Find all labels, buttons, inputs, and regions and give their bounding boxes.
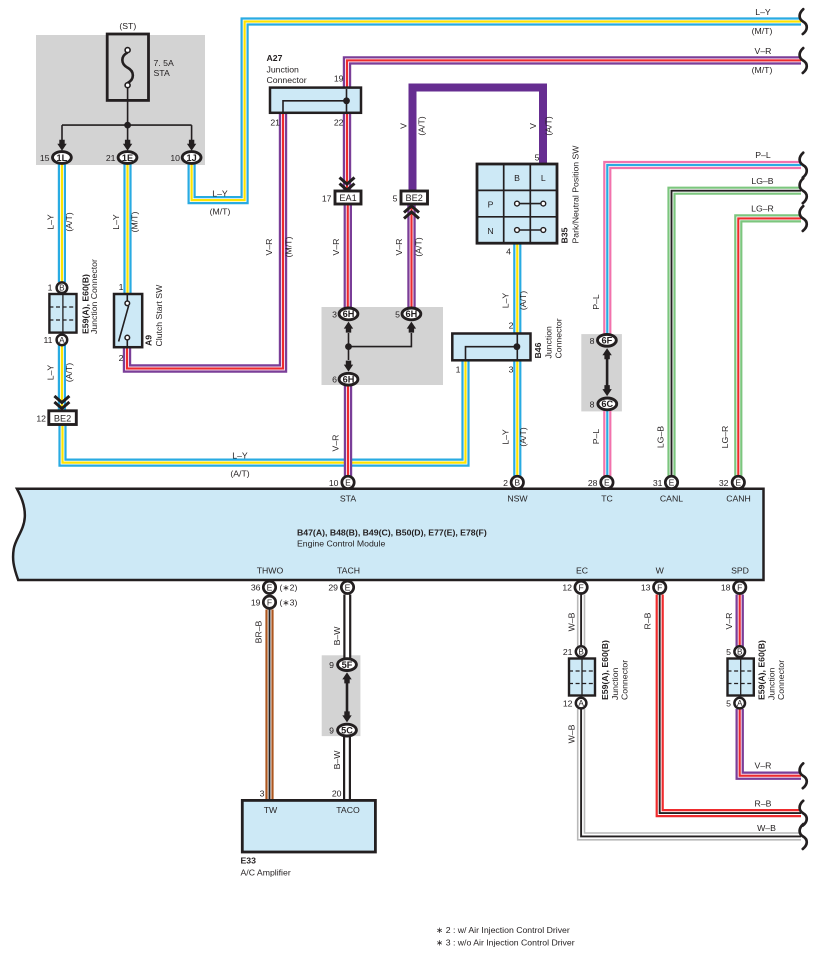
connector terminal 9(5C) xyxy=(338,724,357,736)
svg-text:3: 3 xyxy=(509,365,514,375)
svg-text:B: B xyxy=(514,173,520,183)
svg-text:EA1: EA1 xyxy=(339,193,356,203)
pin ECM STA 10(E) xyxy=(342,476,354,488)
svg-text:B35: B35 xyxy=(560,227,570,243)
svg-text:LG–B: LG–B xyxy=(751,176,773,186)
svg-text:Junction: Junction xyxy=(610,667,620,700)
wire W-B from ECM EC to E59/E60 pin B xyxy=(577,595,585,654)
svg-text:P–L: P–L xyxy=(591,294,601,310)
svg-text:V–R: V–R xyxy=(724,613,734,630)
svg-text:THWO: THWO xyxy=(257,566,284,576)
svg-text:(A/T): (A/T) xyxy=(544,116,554,135)
svg-text:5: 5 xyxy=(726,699,731,709)
svg-text:8: 8 xyxy=(590,399,595,409)
svg-text:CANH: CANH xyxy=(726,494,751,504)
svg-text:6H: 6H xyxy=(406,309,418,319)
svg-text:E59(A), E60(B): E59(A), E60(B) xyxy=(757,640,767,700)
svg-text:1L: 1L xyxy=(57,153,68,163)
svg-text:(A/T): (A/T) xyxy=(230,469,249,479)
wire-break symbol L-Y (M/T) top xyxy=(800,9,807,34)
wire-break symbol V-R bottom xyxy=(800,763,807,788)
svg-text:V–R: V–R xyxy=(331,435,341,452)
svg-text:Connector: Connector xyxy=(620,660,630,700)
svg-text:BE2: BE2 xyxy=(406,193,423,203)
svg-text:B–W: B–W xyxy=(332,626,342,646)
gray box around 5F/5C connectors xyxy=(322,655,361,736)
wire V-R from A27 pin 19 up and right to break (M/T) xyxy=(347,60,801,89)
pin E59/E60 pin A left xyxy=(57,335,68,346)
arrow into terminal 1L xyxy=(57,140,66,151)
svg-text:E33: E33 xyxy=(241,856,257,866)
svg-text:L–Y: L–Y xyxy=(46,214,56,230)
arrow into terminal 1J xyxy=(187,140,196,151)
wire P-L from break right to 6F xyxy=(607,165,801,335)
svg-text:9: 9 xyxy=(329,660,334,670)
svg-text:2: 2 xyxy=(503,478,508,488)
wire V-R from E59/E60 pin A down and right to break xyxy=(740,709,801,776)
svg-text:TACH: TACH xyxy=(337,566,360,576)
wire L-Y from E59/E60 pin A to BE2 xyxy=(58,345,66,412)
clutch start switch A9 xyxy=(114,294,142,347)
pin ECM SPD 18(F) xyxy=(734,581,746,593)
wire L-Y from 1J up and right to break (M/T) xyxy=(192,22,801,201)
svg-text:B–W: B–W xyxy=(332,750,342,770)
svg-text:A: A xyxy=(578,699,584,708)
svg-text:LG–R: LG–R xyxy=(720,426,730,449)
svg-text:V–R: V–R xyxy=(394,239,404,256)
pin ECM CANL 31(E) xyxy=(665,476,677,488)
svg-text:Clutch Start SW: Clutch Start SW xyxy=(154,284,164,347)
fuse STA 7.5A internal lead xyxy=(62,87,192,144)
svg-text:B46: B46 xyxy=(533,342,543,358)
svg-text:3: 3 xyxy=(260,789,265,799)
svg-text:6H: 6H xyxy=(343,309,355,319)
connector terminal 9(5F) xyxy=(338,659,357,671)
svg-text:W–B: W–B xyxy=(757,823,776,833)
wire V-R from A27 pin 22 to EA1 xyxy=(343,112,351,192)
svg-text:E: E xyxy=(669,478,675,488)
connector terminal 3(6H) xyxy=(339,308,358,320)
svg-text:L–Y: L–Y xyxy=(755,7,771,17)
pin E59/E60 pin B EC xyxy=(576,646,587,657)
connector terminal 8(6C) xyxy=(598,398,617,410)
wire R-B from ECM W down and right to break xyxy=(660,595,801,814)
svg-text:5F: 5F xyxy=(342,660,353,670)
svg-text:L–Y: L–Y xyxy=(212,189,228,199)
svg-text:(A/T): (A/T) xyxy=(417,116,427,135)
svg-text:R–B: R–B xyxy=(643,612,653,629)
svg-text:(A/T): (A/T) xyxy=(64,363,74,382)
connector terminal 6(6H) xyxy=(339,373,358,385)
svg-text:5: 5 xyxy=(726,647,731,657)
svg-text:B: B xyxy=(59,284,65,293)
svg-text:19: 19 xyxy=(251,598,261,608)
svg-text:B: B xyxy=(737,648,743,657)
svg-text:LG–R: LG–R xyxy=(751,204,774,214)
wire V-R from 6(6H) to ECM STA xyxy=(344,385,352,477)
svg-text:8: 8 xyxy=(590,336,595,346)
svg-text:6C: 6C xyxy=(601,399,613,409)
svg-text:10: 10 xyxy=(170,153,180,163)
svg-text:P: P xyxy=(488,200,494,210)
svg-text:B: B xyxy=(578,648,584,657)
wire B-W from 5C to E33 TACO xyxy=(343,729,351,801)
svg-text:N: N xyxy=(487,226,493,236)
gray box around 6H junction block xyxy=(322,307,444,385)
wire L-Y from 1L to E59/E60 junction connector pin B xyxy=(58,160,66,282)
svg-text:Junction: Junction xyxy=(767,667,777,700)
connector terminal 1E xyxy=(118,152,137,164)
junction connector E59(A),E60(B) left xyxy=(49,294,76,333)
svg-text:(M/T): (M/T) xyxy=(130,212,140,233)
double chevron out of BE2 upper xyxy=(404,206,419,219)
Engine Control Module B47(A),B48(B),B49(C),B50(D),E77(E),E78(F) xyxy=(13,489,763,580)
svg-text:6F: 6F xyxy=(602,336,613,346)
B35 contact N row xyxy=(520,229,541,231)
svg-text:20: 20 xyxy=(332,789,342,799)
svg-text:(∗3): (∗3) xyxy=(280,598,298,608)
svg-text:5: 5 xyxy=(535,153,540,163)
svg-text:Connector: Connector xyxy=(554,318,564,358)
connector terminal 1L xyxy=(53,152,72,164)
svg-text:∗ 2 : w/ Air Injection Control: ∗ 2 : w/ Air Injection Control Driver xyxy=(436,925,570,935)
svg-text:BE2: BE2 xyxy=(54,413,71,423)
wire LG-R from break to ECM CANH xyxy=(738,218,801,477)
svg-text:A/C Amplifier: A/C Amplifier xyxy=(241,868,291,878)
svg-text:L: L xyxy=(541,173,546,183)
svg-text:STA: STA xyxy=(154,68,170,78)
svg-text:(M/T): (M/T) xyxy=(752,26,773,36)
wire LG-B from break to ECM CANL xyxy=(672,191,802,477)
svg-text:Junction: Junction xyxy=(267,65,300,75)
svg-text:36: 36 xyxy=(251,583,261,593)
wire B-W from ECM TACH to 5F xyxy=(343,595,351,667)
wire-break symbol LG-R xyxy=(800,206,807,231)
svg-text:6H: 6H xyxy=(343,375,355,385)
svg-text:12: 12 xyxy=(36,414,46,424)
svg-text:A9: A9 xyxy=(144,335,154,346)
junction connector A27 xyxy=(270,88,361,113)
junction connector E59(A),E60(B) below EC xyxy=(569,659,595,696)
pin E59/E60 pin B SPD xyxy=(734,646,745,657)
svg-text:W–B: W–B xyxy=(567,724,577,743)
wire-break symbol W-B bottom xyxy=(800,824,807,849)
svg-text:12: 12 xyxy=(563,699,573,709)
connector terminal 8(6F) xyxy=(598,334,617,346)
svg-text:L–Y: L–Y xyxy=(501,293,511,309)
fuse STA symbol box xyxy=(107,34,148,100)
pin E59/E60 pin A EC xyxy=(576,698,587,709)
svg-text:6: 6 xyxy=(332,375,337,385)
wire V-R from A27 pin 21 down and left to A9 pin 2 xyxy=(127,112,283,369)
svg-text:Junction: Junction xyxy=(544,326,554,359)
svg-text:19: 19 xyxy=(334,74,344,84)
svg-text:A: A xyxy=(737,699,743,708)
junction connector B46 xyxy=(452,334,530,361)
svg-text:W: W xyxy=(656,566,665,576)
svg-text:TACO: TACO xyxy=(336,805,360,815)
svg-text:TC: TC xyxy=(601,494,613,504)
svg-text:9: 9 xyxy=(329,725,334,735)
svg-text:15: 15 xyxy=(40,153,50,163)
double chevron into BE2 lower xyxy=(54,396,69,409)
svg-text:Connector: Connector xyxy=(267,75,307,85)
svg-text:32: 32 xyxy=(719,478,729,488)
svg-text:E59(A), E60(B): E59(A), E60(B) xyxy=(600,640,610,700)
wire L-Y from B46 pin 3 to ECM NSW xyxy=(513,359,521,477)
svg-text:V: V xyxy=(528,123,538,129)
svg-text:B: B xyxy=(514,478,520,488)
svg-text:21: 21 xyxy=(563,647,573,657)
pin ECM W 13(F) xyxy=(654,581,666,593)
gray box around 6F/6C connectors xyxy=(581,334,622,411)
svg-text:1: 1 xyxy=(48,283,53,293)
svg-text:4: 4 xyxy=(506,247,511,257)
pin ECM NSW 2(B) xyxy=(511,476,523,488)
svg-text:13: 13 xyxy=(641,583,651,593)
svg-text:TW: TW xyxy=(264,805,278,815)
svg-text:Park/Neutral Position SW: Park/Neutral Position SW xyxy=(571,145,581,244)
svg-text:P–L: P–L xyxy=(755,150,771,160)
svg-text:22: 22 xyxy=(334,118,344,128)
svg-text:L–Y: L–Y xyxy=(111,214,121,230)
pin ECM THWO 36(E) xyxy=(263,581,275,593)
svg-text:(A/T): (A/T) xyxy=(64,212,74,231)
pin E59/E60 pin B left xyxy=(57,282,68,293)
svg-text:L–Y: L–Y xyxy=(46,365,56,381)
svg-text:(M/T): (M/T) xyxy=(210,207,231,217)
wire V-R from EA1 to 3(6H) xyxy=(344,204,352,309)
svg-text:(M/T): (M/T) xyxy=(284,237,294,258)
svg-text:5C: 5C xyxy=(341,725,353,735)
svg-text:28: 28 xyxy=(588,478,598,488)
svg-text:31: 31 xyxy=(653,478,663,488)
double chevron into EA1 xyxy=(340,178,355,191)
6F-6C link arrow xyxy=(606,356,609,388)
svg-text:E: E xyxy=(604,478,610,488)
wire-break symbol V-R (M/T) top xyxy=(800,48,807,73)
connector terminal 1J xyxy=(182,152,201,164)
splice box BE2 lower xyxy=(49,411,77,425)
svg-text:EC: EC xyxy=(576,566,588,576)
svg-text:7. 5A: 7. 5A xyxy=(154,58,174,68)
wire V-R from ECM SPD to E59/E60 pin B xyxy=(736,595,744,654)
svg-text:E: E xyxy=(267,582,273,592)
svg-text:V–R: V–R xyxy=(755,46,772,56)
svg-text:2: 2 xyxy=(119,353,124,363)
svg-text:R–B: R–B xyxy=(755,799,772,809)
svg-text:17: 17 xyxy=(322,194,332,204)
svg-text:(ST): (ST) xyxy=(119,21,136,31)
wire L-Y from B35 pin 4 to B46 pin 2 xyxy=(513,242,521,335)
svg-text:SPD: SPD xyxy=(731,566,749,576)
svg-text:12: 12 xyxy=(562,583,572,593)
svg-text:V–R: V–R xyxy=(331,239,341,256)
pin ECM TC 28(E) xyxy=(601,476,613,488)
wire-break symbol P-L xyxy=(800,153,807,178)
svg-text:(M/T): (M/T) xyxy=(752,65,773,75)
svg-text:(A/T): (A/T) xyxy=(518,291,528,310)
svg-text:CANL: CANL xyxy=(660,494,683,504)
svg-text:Engine Control Module: Engine Control Module xyxy=(297,539,386,549)
svg-text:5: 5 xyxy=(395,309,400,319)
svg-text:18: 18 xyxy=(721,583,731,593)
wire-break symbol LG-B xyxy=(800,178,807,203)
wire BR-B from ECM THWO pin 19(F) to E33 TW xyxy=(265,610,273,802)
svg-text:21: 21 xyxy=(270,118,280,128)
junction node below fuse xyxy=(124,122,131,129)
5F-5C link arrow xyxy=(346,680,349,714)
svg-text:F: F xyxy=(578,582,583,592)
svg-text:W–B: W–B xyxy=(567,612,577,631)
svg-text:B47(A), B48(B), B49(C), B50(D): B47(A), B48(B), B49(C), B50(D), E77(E), … xyxy=(297,528,487,538)
svg-text:STA: STA xyxy=(340,494,356,504)
svg-text:E: E xyxy=(735,478,741,488)
svg-text:BR–B: BR–B xyxy=(253,620,263,643)
svg-text:11: 11 xyxy=(43,335,52,345)
svg-text:29: 29 xyxy=(328,583,338,593)
svg-text:1: 1 xyxy=(119,282,124,292)
svg-text:E: E xyxy=(345,582,351,592)
svg-text:F: F xyxy=(737,582,742,592)
svg-text:V–R: V–R xyxy=(755,761,772,771)
A/C amplifier E33 xyxy=(242,800,375,852)
pin ECM CANH 32(E) xyxy=(732,476,744,488)
svg-text:Junction Connector: Junction Connector xyxy=(89,259,99,334)
wire L-Y from 1E to A9 pin 1 xyxy=(123,160,131,295)
svg-text:Connector: Connector xyxy=(776,660,786,700)
svg-text:E: E xyxy=(345,478,351,488)
pin E59/E60 pin A SPD xyxy=(734,698,745,709)
pin ECM TACH 29(E) xyxy=(341,581,353,593)
svg-text:A: A xyxy=(59,336,65,345)
wire W-B from E59/E60 pin A down and right to break xyxy=(581,709,801,836)
B35 contact P row xyxy=(520,203,541,205)
gray box around fuse STA xyxy=(36,35,205,165)
wire L-Y from BE2 down, across, up to B46 pin 1 xyxy=(63,361,466,463)
wire-break symbol R-B bottom xyxy=(800,801,807,826)
svg-text:1: 1 xyxy=(456,365,461,375)
pin ECM THWO 19(F) xyxy=(263,596,275,608)
svg-text:21: 21 xyxy=(106,153,116,163)
svg-text:A27: A27 xyxy=(267,53,283,63)
park/neutral position switch B35 xyxy=(477,164,557,243)
arrow into terminal 1E xyxy=(123,140,132,151)
svg-text:1E: 1E xyxy=(122,153,133,163)
svg-text:2: 2 xyxy=(509,321,514,331)
wire V-R from BE2 to 5(6H) xyxy=(407,204,415,309)
wire V solid from BE2 up and right to B35 pin 5 xyxy=(413,88,544,192)
svg-text:V: V xyxy=(398,123,408,129)
svg-text:LG–B: LG–B xyxy=(656,426,666,448)
svg-text:3: 3 xyxy=(332,309,337,319)
svg-text:F: F xyxy=(267,597,272,607)
svg-text:5: 5 xyxy=(393,194,398,204)
wire P-L from 6C to ECM TC xyxy=(603,409,611,477)
svg-text:NSW: NSW xyxy=(507,494,528,504)
6H block internal links xyxy=(349,333,412,360)
connector terminal 5(6H) xyxy=(402,308,421,320)
svg-text:(A/T): (A/T) xyxy=(518,427,528,446)
splice box EA1 xyxy=(335,191,361,204)
svg-text:V–R: V–R xyxy=(264,239,274,256)
svg-text:L–Y: L–Y xyxy=(501,429,511,445)
svg-text:(A/T): (A/T) xyxy=(414,237,424,256)
svg-text:(∗2): (∗2) xyxy=(280,583,298,593)
svg-text:P–L: P–L xyxy=(591,429,601,445)
fuse element S-curve xyxy=(122,53,133,84)
svg-text:1J: 1J xyxy=(186,153,196,163)
splice box BE2 upper xyxy=(401,191,428,204)
svg-text:L–Y: L–Y xyxy=(232,451,248,461)
svg-text:10: 10 xyxy=(329,478,339,488)
junction connector E59(A),E60(B) below SPD xyxy=(728,659,754,696)
pin ECM EC 12(F) xyxy=(575,581,587,593)
svg-text:F: F xyxy=(657,582,662,592)
svg-text:∗ 3 : w/o Air Injection Contro: ∗ 3 : w/o Air Injection Control Driver xyxy=(436,938,575,948)
